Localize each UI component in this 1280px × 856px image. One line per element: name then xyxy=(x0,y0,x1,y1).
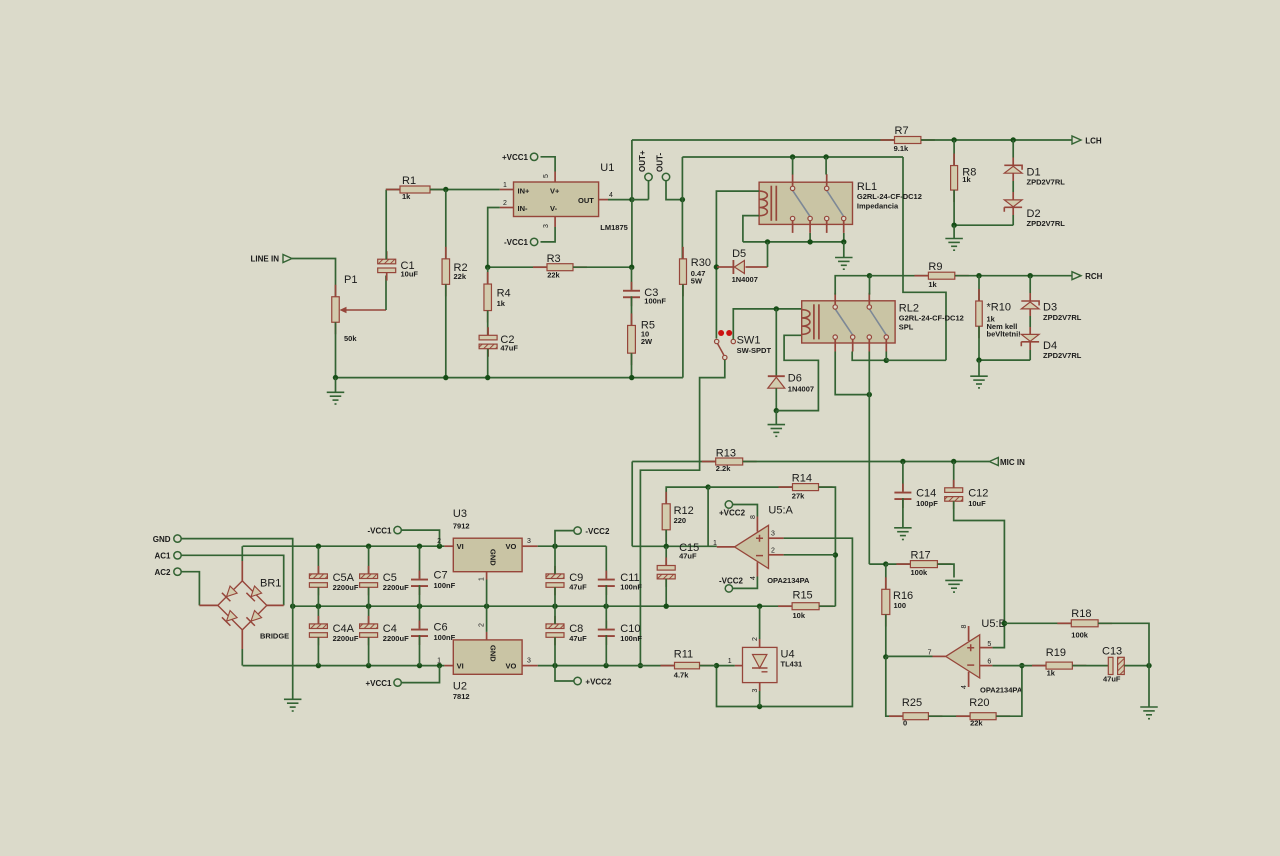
svg-text:G2RL-24-CF-DC12: G2RL-24-CF-DC12 xyxy=(899,314,964,323)
svg-text:R4: R4 xyxy=(497,288,511,300)
svg-text:AC2: AC2 xyxy=(154,568,171,577)
svg-text:R30: R30 xyxy=(691,257,711,269)
svg-text:C6: C6 xyxy=(434,622,448,634)
svg-text:IN+: IN+ xyxy=(518,187,531,196)
svg-text:47uF: 47uF xyxy=(679,552,697,561)
svg-text:100pF: 100pF xyxy=(916,499,938,508)
svg-text:LINE IN: LINE IN xyxy=(251,255,280,264)
svg-text:100nF: 100nF xyxy=(620,634,642,643)
svg-text:3: 3 xyxy=(543,224,550,228)
svg-text:47uF: 47uF xyxy=(1103,675,1121,684)
svg-text:GND: GND xyxy=(153,535,171,544)
svg-text:U2: U2 xyxy=(453,681,467,693)
svg-text:OPA2134PA: OPA2134PA xyxy=(980,686,1023,695)
svg-text:VO: VO xyxy=(506,662,517,671)
svg-text:100: 100 xyxy=(894,601,907,610)
svg-text:220: 220 xyxy=(674,516,687,525)
svg-text:3: 3 xyxy=(752,689,759,693)
svg-text:Impedancia: Impedancia xyxy=(857,202,899,211)
svg-text:C13: C13 xyxy=(1102,646,1122,658)
svg-text:2: 2 xyxy=(752,637,759,641)
svg-text:10uF: 10uF xyxy=(401,270,419,279)
svg-text:+VCC2: +VCC2 xyxy=(719,509,746,518)
svg-text:3: 3 xyxy=(527,658,531,665)
svg-text:BR1: BR1 xyxy=(260,578,281,590)
svg-text:2200uF: 2200uF xyxy=(383,583,409,592)
svg-text:2.2k: 2.2k xyxy=(716,464,731,473)
svg-text:2: 2 xyxy=(479,623,486,627)
svg-text:beVltetni!: beVltetni! xyxy=(987,330,1021,339)
svg-text:10k: 10k xyxy=(793,611,806,620)
svg-text:LCH: LCH xyxy=(1085,137,1102,146)
svg-text:1: 1 xyxy=(728,658,732,665)
svg-text:R25: R25 xyxy=(902,697,922,709)
svg-text:22k: 22k xyxy=(970,719,983,728)
svg-text:V+: V+ xyxy=(550,187,560,196)
svg-text:22k: 22k xyxy=(547,271,560,280)
svg-text:C12: C12 xyxy=(968,488,988,500)
svg-text:1N4007: 1N4007 xyxy=(732,275,758,284)
svg-text:IN-: IN- xyxy=(518,204,529,213)
svg-text:4: 4 xyxy=(750,576,757,580)
svg-text:ZPD2V7RL: ZPD2V7RL xyxy=(1043,351,1082,360)
svg-text:10uF: 10uF xyxy=(968,499,986,508)
svg-text:LM1875: LM1875 xyxy=(600,223,628,232)
svg-text:4.7k: 4.7k xyxy=(674,671,689,680)
svg-text:G2RL-24-CF-DC12: G2RL-24-CF-DC12 xyxy=(857,192,922,201)
svg-text:2: 2 xyxy=(503,200,507,207)
svg-text:1k: 1k xyxy=(1047,669,1056,678)
svg-text:U3: U3 xyxy=(453,508,467,520)
svg-text:VI: VI xyxy=(457,542,464,551)
svg-text:R19: R19 xyxy=(1046,647,1066,659)
svg-text:VO: VO xyxy=(506,542,517,551)
svg-text:V-: V- xyxy=(550,204,558,213)
svg-text:5: 5 xyxy=(543,174,550,178)
svg-text:7912: 7912 xyxy=(453,522,470,531)
svg-text:ZPD2V7RL: ZPD2V7RL xyxy=(1027,219,1066,228)
svg-text:D6: D6 xyxy=(788,373,802,385)
svg-text:SW-SPDT: SW-SPDT xyxy=(737,346,772,355)
svg-text:R17: R17 xyxy=(911,550,931,562)
svg-text:1N4007: 1N4007 xyxy=(788,385,814,394)
svg-text:GND: GND xyxy=(489,549,498,566)
svg-text:0: 0 xyxy=(903,719,907,728)
svg-text:100nF: 100nF xyxy=(434,581,456,590)
svg-text:D3: D3 xyxy=(1043,302,1057,314)
svg-text:2: 2 xyxy=(771,548,775,555)
svg-text:8: 8 xyxy=(750,515,757,519)
svg-text:-VCC2: -VCC2 xyxy=(585,527,610,536)
svg-text:C7: C7 xyxy=(434,570,448,582)
svg-text:R11: R11 xyxy=(674,649,693,661)
svg-text:-VCC1: -VCC1 xyxy=(504,238,529,247)
svg-text:100nF: 100nF xyxy=(644,297,666,306)
svg-text:100k: 100k xyxy=(911,568,929,577)
svg-text:R3: R3 xyxy=(547,253,561,265)
svg-text:R20: R20 xyxy=(969,697,989,709)
svg-text:2: 2 xyxy=(437,538,441,545)
svg-text:1: 1 xyxy=(503,182,507,189)
svg-text:2W: 2W xyxy=(641,337,653,346)
svg-text:+VCC1: +VCC1 xyxy=(502,153,529,162)
svg-text:R15: R15 xyxy=(793,590,813,602)
svg-text:8: 8 xyxy=(961,625,968,629)
svg-text:VI: VI xyxy=(457,662,464,671)
svg-text:ZPD2V7RL: ZPD2V7RL xyxy=(1027,178,1066,187)
svg-text:6: 6 xyxy=(987,659,991,666)
svg-text:100k: 100k xyxy=(1071,631,1089,640)
svg-text:R18: R18 xyxy=(1071,608,1091,620)
svg-text:OUT+: OUT+ xyxy=(638,150,647,172)
svg-text:1k: 1k xyxy=(402,192,411,201)
svg-text:1: 1 xyxy=(713,540,717,547)
svg-text:R1: R1 xyxy=(402,175,416,187)
svg-text:U1: U1 xyxy=(600,162,614,174)
svg-text:27k: 27k xyxy=(792,492,805,501)
svg-text:5W: 5W xyxy=(691,277,703,286)
svg-text:MIC IN: MIC IN xyxy=(1000,458,1025,467)
svg-text:1k: 1k xyxy=(928,280,937,289)
svg-text:P1: P1 xyxy=(344,274,357,286)
svg-text:SW1: SW1 xyxy=(737,335,761,347)
svg-text:-VCC2: -VCC2 xyxy=(719,577,744,586)
svg-text:47uF: 47uF xyxy=(500,344,518,353)
svg-text:OUT: OUT xyxy=(578,196,594,205)
svg-text:C14: C14 xyxy=(916,488,936,500)
svg-text:-VCC1: -VCC1 xyxy=(367,527,392,536)
svg-text:1k: 1k xyxy=(962,175,971,184)
svg-text:+VCC1: +VCC1 xyxy=(365,679,392,688)
svg-text:BRIDGE: BRIDGE xyxy=(260,632,289,641)
svg-text:TL431: TL431 xyxy=(781,660,803,669)
svg-text:4: 4 xyxy=(961,685,968,689)
svg-text:ZPD2V7RL: ZPD2V7RL xyxy=(1043,313,1082,322)
svg-text:GND: GND xyxy=(489,645,498,662)
svg-text:R7: R7 xyxy=(895,125,909,137)
svg-text:+VCC2: +VCC2 xyxy=(585,678,612,687)
svg-text:U5:A: U5:A xyxy=(768,505,793,517)
svg-text:2200uF: 2200uF xyxy=(333,583,359,592)
svg-text:7: 7 xyxy=(928,650,932,657)
svg-text:4: 4 xyxy=(609,192,613,199)
svg-text:3: 3 xyxy=(527,538,531,545)
svg-text:100nF: 100nF xyxy=(434,633,456,642)
svg-text:R9: R9 xyxy=(928,261,942,273)
svg-text:9.1k: 9.1k xyxy=(894,144,909,153)
svg-text:RCH: RCH xyxy=(1085,272,1103,281)
svg-text:SPL: SPL xyxy=(899,323,914,332)
svg-text:22k: 22k xyxy=(454,272,467,281)
svg-text:5: 5 xyxy=(987,641,991,648)
svg-text:1k: 1k xyxy=(497,299,506,308)
svg-text:OUT-: OUT- xyxy=(656,153,665,172)
svg-text:R14: R14 xyxy=(792,473,812,485)
svg-text:1: 1 xyxy=(437,658,441,665)
svg-text:47uF: 47uF xyxy=(569,634,587,643)
svg-text:*R10: *R10 xyxy=(987,302,1011,314)
svg-text:OPA2134PA: OPA2134PA xyxy=(767,576,810,585)
svg-text:47uF: 47uF xyxy=(569,583,587,592)
svg-text:50k: 50k xyxy=(344,334,357,343)
svg-text:D5: D5 xyxy=(732,248,746,260)
svg-text:1: 1 xyxy=(479,577,486,581)
svg-text:R13: R13 xyxy=(716,448,736,460)
svg-text:100nF: 100nF xyxy=(620,583,642,592)
svg-text:AC1: AC1 xyxy=(154,552,171,561)
svg-text:7812: 7812 xyxy=(453,692,470,701)
svg-text:2200uF: 2200uF xyxy=(383,634,409,643)
svg-text:3: 3 xyxy=(771,531,775,538)
svg-text:2200uF: 2200uF xyxy=(333,634,359,643)
